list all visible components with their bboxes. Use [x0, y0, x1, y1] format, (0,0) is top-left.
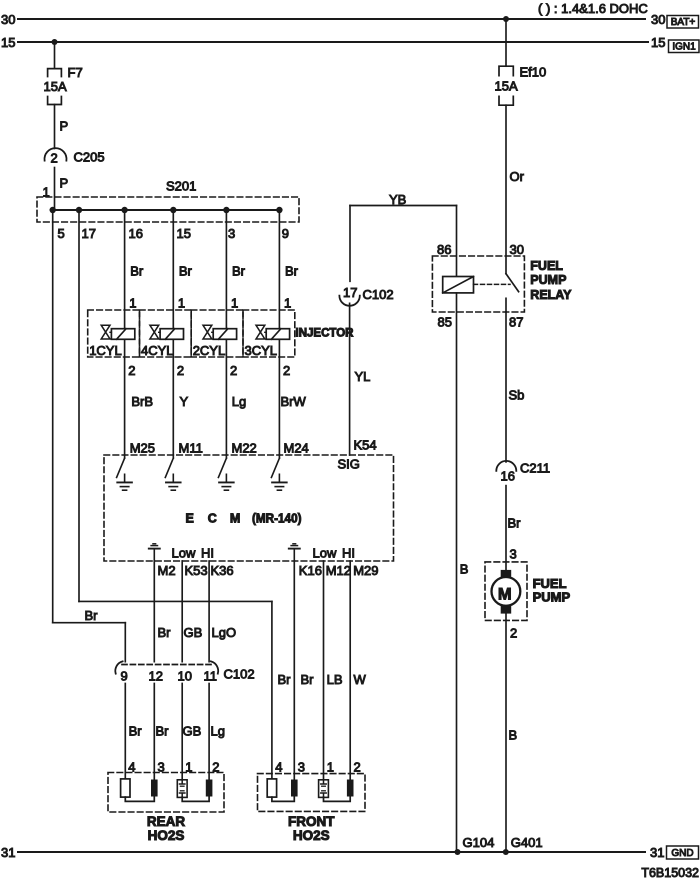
svg-text:M29: M29: [353, 563, 378, 578]
svg-text:15A: 15A: [495, 79, 518, 94]
svg-text:Br: Br: [232, 264, 246, 279]
svg-text:85: 85: [438, 315, 452, 330]
svg-text:LB: LB: [327, 672, 343, 687]
svg-text:K53: K53: [185, 563, 208, 578]
svg-text:4: 4: [275, 760, 282, 775]
svg-text:M: M: [230, 512, 240, 526]
svg-text:1: 1: [231, 296, 238, 311]
svg-text:M22: M22: [232, 441, 257, 456]
svg-text:Br: Br: [129, 724, 143, 739]
svg-text:SIG: SIG: [338, 457, 360, 472]
svg-text:Y: Y: [180, 394, 189, 409]
svg-text:9: 9: [121, 669, 128, 684]
svg-text:Lg: Lg: [232, 394, 246, 409]
svg-text:15A: 15A: [44, 79, 67, 94]
svg-text:Br: Br: [85, 608, 99, 623]
svg-text:GND: GND: [671, 848, 693, 859]
svg-text:2: 2: [177, 363, 184, 378]
svg-text:C211: C211: [520, 461, 550, 476]
svg-text:17: 17: [82, 226, 96, 241]
svg-text:B: B: [460, 562, 469, 577]
svg-text:3: 3: [158, 760, 165, 775]
svg-text:M: M: [498, 585, 512, 603]
svg-text:K54: K54: [354, 438, 377, 453]
svg-text:S201: S201: [166, 179, 196, 194]
svg-text:( ) : 1.4&1.6 DOHC: ( ) : 1.4&1.6 DOHC: [538, 1, 648, 16]
svg-text:M11: M11: [179, 441, 203, 456]
svg-text:2: 2: [212, 760, 219, 775]
svg-text:15: 15: [651, 35, 665, 50]
svg-text:LgO: LgO: [212, 625, 237, 640]
svg-text:2: 2: [510, 625, 517, 640]
svg-text:Ef10: Ef10: [520, 65, 547, 80]
svg-text:Or: Or: [510, 169, 525, 184]
svg-text:2: 2: [283, 363, 290, 378]
svg-text:HI: HI: [342, 546, 355, 561]
svg-text:Br: Br: [130, 264, 144, 279]
svg-text:Br: Br: [508, 516, 522, 531]
svg-text:16: 16: [129, 226, 143, 241]
svg-text:2: 2: [230, 363, 237, 378]
svg-text:10: 10: [178, 669, 192, 684]
svg-text:M25: M25: [130, 441, 155, 456]
svg-text:K16: K16: [299, 563, 322, 578]
svg-text:C: C: [208, 512, 217, 526]
svg-text:30: 30: [510, 242, 524, 257]
svg-text:11: 11: [204, 669, 218, 684]
svg-text:3: 3: [510, 547, 517, 562]
svg-text:GB: GB: [184, 625, 203, 640]
svg-text:(MR-140): (MR-140): [252, 512, 302, 526]
svg-text:3: 3: [298, 760, 305, 775]
svg-text:15: 15: [177, 226, 191, 241]
svg-text:Br: Br: [179, 264, 193, 279]
svg-text:P: P: [60, 119, 69, 134]
svg-text:30: 30: [1, 12, 15, 27]
svg-text:PUMP: PUMP: [530, 273, 566, 287]
svg-text:F7: F7: [68, 65, 83, 80]
svg-text:FUEL: FUEL: [533, 576, 567, 591]
svg-text:E: E: [186, 512, 194, 526]
svg-text:M2: M2: [158, 563, 176, 578]
svg-text:1CYL: 1CYL: [89, 343, 122, 358]
svg-text:HI: HI: [201, 546, 214, 561]
svg-text:30: 30: [651, 12, 665, 27]
svg-text:B: B: [509, 728, 518, 743]
svg-text:PUMP: PUMP: [533, 590, 571, 605]
svg-text:1: 1: [178, 296, 185, 311]
svg-text:2: 2: [51, 151, 58, 166]
svg-text:Lg: Lg: [211, 724, 225, 739]
svg-text:G401: G401: [511, 835, 543, 850]
svg-text:31: 31: [1, 845, 15, 860]
svg-text:K36: K36: [211, 563, 234, 578]
svg-text:BAT+: BAT+: [671, 17, 696, 28]
svg-text:Br: Br: [278, 672, 292, 687]
svg-text:G104: G104: [463, 835, 495, 850]
svg-text:M24: M24: [284, 441, 309, 456]
svg-text:YB: YB: [389, 192, 406, 207]
svg-text:87: 87: [509, 315, 523, 330]
svg-text:Br: Br: [285, 264, 299, 279]
svg-text:YL: YL: [355, 369, 371, 384]
svg-text:16: 16: [501, 469, 515, 484]
svg-text:GB: GB: [183, 724, 202, 739]
svg-text:17: 17: [343, 285, 357, 300]
svg-text:INJECTOR: INJECTOR: [296, 328, 355, 340]
svg-text:9: 9: [282, 226, 289, 241]
svg-text:BrB: BrB: [131, 394, 153, 409]
svg-text:FUEL: FUEL: [530, 259, 563, 273]
svg-text:Sb: Sb: [509, 388, 525, 403]
svg-text:1: 1: [284, 296, 291, 311]
svg-text:P: P: [60, 176, 69, 191]
svg-text:M12: M12: [326, 563, 351, 578]
svg-text:BrW: BrW: [281, 394, 307, 409]
svg-text:IGN1: IGN1: [672, 42, 696, 53]
svg-text:Br: Br: [301, 672, 315, 687]
svg-text:C205: C205: [74, 150, 105, 165]
svg-text:2: 2: [354, 760, 361, 775]
svg-text:31: 31: [650, 845, 664, 860]
svg-text:Low: Low: [172, 546, 196, 561]
svg-text:3CYL: 3CYL: [245, 343, 278, 358]
svg-text:Br: Br: [158, 625, 172, 640]
svg-text:C102: C102: [224, 667, 255, 682]
svg-text:5: 5: [58, 226, 65, 241]
svg-text:T6B15032: T6B15032: [641, 866, 699, 879]
svg-text:3: 3: [228, 226, 235, 241]
svg-text:4CYL: 4CYL: [141, 343, 174, 358]
svg-text:RELAY: RELAY: [530, 288, 572, 302]
svg-text:86: 86: [437, 242, 451, 257]
svg-text:4: 4: [128, 760, 135, 775]
svg-text:REAR: REAR: [147, 814, 186, 829]
svg-text:1: 1: [185, 760, 192, 775]
svg-text:1: 1: [327, 760, 334, 775]
svg-text:Br: Br: [156, 724, 170, 739]
svg-text:Low: Low: [313, 546, 337, 561]
svg-text:HO2S: HO2S: [148, 828, 185, 843]
svg-text:1: 1: [129, 296, 136, 311]
svg-text:15: 15: [1, 35, 15, 50]
svg-text:12: 12: [149, 669, 163, 684]
svg-text:HO2S: HO2S: [293, 828, 330, 843]
svg-text:C102: C102: [363, 287, 394, 302]
svg-text:W: W: [354, 672, 367, 687]
svg-text:2CYL: 2CYL: [193, 343, 226, 358]
svg-text:2: 2: [128, 363, 135, 378]
svg-text:FRONT: FRONT: [288, 814, 335, 829]
